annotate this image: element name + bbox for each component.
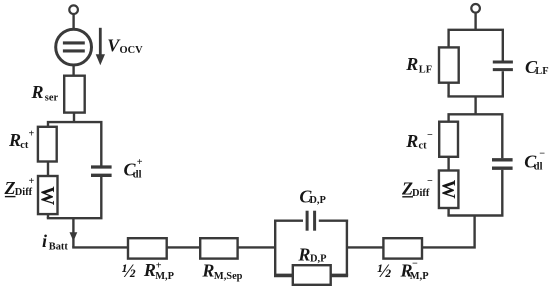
- svg-text:½: ½: [122, 261, 136, 282]
- svg-text:ct: ct: [419, 141, 428, 152]
- svg-text:Z: Z: [4, 178, 16, 198]
- svg-text:−: −: [412, 259, 418, 270]
- svg-text:Diff: Diff: [412, 188, 430, 199]
- svg-text:½: ½: [377, 261, 391, 282]
- svg-text:OCV: OCV: [120, 45, 144, 56]
- svg-text:i: i: [42, 231, 47, 251]
- svg-text:−: −: [539, 149, 545, 160]
- svg-text:LF: LF: [419, 64, 432, 75]
- svg-text:R: R: [31, 82, 44, 102]
- svg-text:M,Sep: M,Sep: [214, 271, 243, 282]
- svg-text:M,P: M,P: [410, 271, 429, 282]
- svg-text:W: W: [437, 180, 458, 199]
- svg-text:+: +: [29, 129, 35, 140]
- svg-text:+: +: [137, 157, 143, 168]
- svg-text:−: −: [427, 176, 433, 187]
- svg-text:ct: ct: [20, 140, 29, 151]
- svg-text:Diff: Diff: [15, 187, 33, 198]
- svg-text:W: W: [36, 186, 57, 205]
- svg-text:dl: dl: [534, 161, 543, 172]
- svg-text:D,P: D,P: [309, 195, 326, 206]
- svg-text:R: R: [405, 131, 418, 151]
- svg-text:R: R: [405, 54, 418, 74]
- svg-text:−: −: [427, 130, 433, 141]
- svg-text:+: +: [29, 176, 35, 187]
- svg-text:+: +: [156, 260, 162, 271]
- svg-text:dl: dl: [133, 169, 142, 180]
- svg-text:R: R: [143, 260, 156, 280]
- svg-text:R: R: [201, 260, 214, 280]
- svg-text:M,P: M,P: [155, 271, 174, 282]
- svg-text:LF: LF: [535, 66, 548, 77]
- svg-text:R: R: [8, 130, 21, 150]
- svg-text:D,P: D,P: [310, 254, 327, 265]
- svg-text:Batt: Batt: [49, 242, 69, 253]
- svg-text:ser: ser: [45, 93, 59, 104]
- svg-text:R: R: [297, 244, 310, 264]
